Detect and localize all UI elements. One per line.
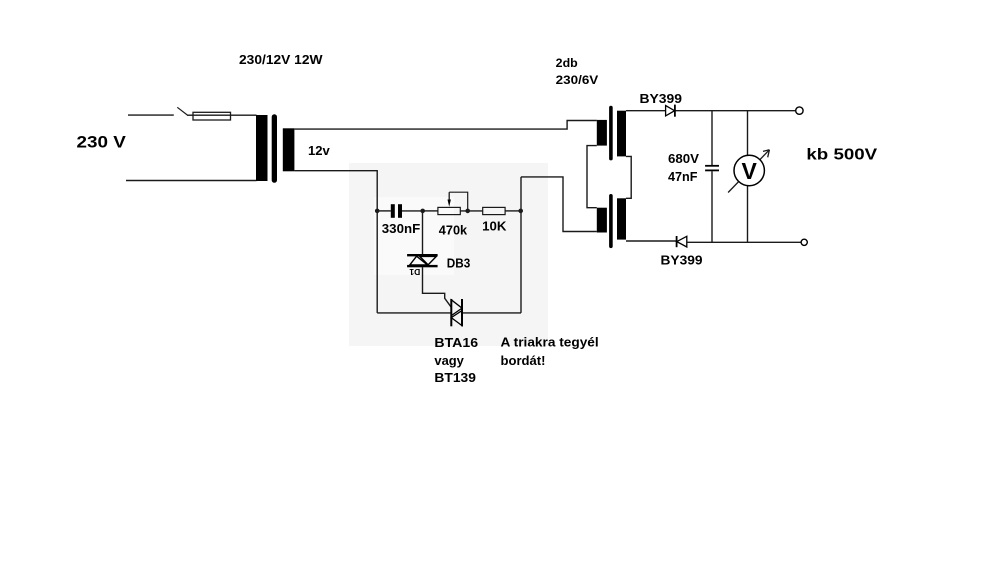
wire P1 wiper link — [449, 192, 468, 211]
node D junction — [518, 209, 523, 214]
svg-text:470k: 470k — [439, 223, 468, 238]
transformer TR2 core — [609, 106, 613, 161]
svg-text:vagy: vagy — [434, 353, 464, 368]
potentiometer P1 wiper arrow — [448, 192, 451, 207]
wire TR2-TR3 primary series link — [587, 146, 597, 208]
svg-text:12v: 12v — [308, 143, 331, 158]
svg-text:V: V — [742, 158, 758, 184]
fuse F1 — [193, 112, 231, 120]
diode D3 BY399 — [677, 236, 687, 247]
wire bottom rail right — [687, 241, 801, 243]
wire triac MT2 to node D — [462, 312, 521, 314]
transformer TR1 12v secondary winding — [283, 128, 295, 171]
svg-text:2db: 2db — [556, 56, 578, 70]
transformer TR3 secondary winding — [617, 198, 626, 239]
transformer TR3 core — [609, 194, 613, 248]
node B junction — [420, 209, 425, 214]
transformer TR1 core — [272, 114, 277, 183]
wire P1 to R1 — [460, 210, 482, 212]
switch S1 — [177, 107, 187, 115]
wire voltmeter bottom — [747, 186, 749, 243]
svg-text:BT139: BT139 — [434, 370, 476, 385]
wire 12v secondary top to TR2 primary — [294, 121, 596, 130]
transformer TR2 secondary winding — [617, 111, 626, 157]
wire node B down to diac — [422, 211, 424, 254]
svg-text:BTA16: BTA16 — [434, 335, 478, 350]
svg-text:230/12V 12W: 230/12V 12W — [239, 52, 323, 67]
wire switch to fuse — [187, 114, 193, 116]
transformer TR2 primary winding — [597, 120, 607, 146]
triac Q1 — [451, 299, 462, 326]
diode D2 BY399 — [666, 105, 675, 117]
svg-text:A triakra tegyél: A triakra tegyél — [501, 336, 599, 350]
node C junction — [465, 209, 470, 214]
wire node D to TR2 primary bottom — [521, 177, 597, 232]
svg-text:kb 500V: kb 500V — [806, 147, 878, 164]
wire fuse to TR1 — [231, 114, 257, 116]
wire bottom rail to triac MT1 — [377, 312, 451, 314]
svg-text:BY399: BY399 — [640, 91, 683, 106]
wire mains top — [128, 114, 174, 116]
transformer TR1 230/12V primary winding — [256, 115, 268, 181]
wire top rail to output — [626, 110, 796, 112]
svg-text:680V: 680V — [668, 151, 699, 166]
wire C2 top — [711, 111, 713, 166]
wire diac to triac gate — [423, 267, 452, 307]
terminal output negative — [801, 239, 807, 245]
wire voltmeter top — [747, 111, 749, 156]
wire TR2-TR3 secondary series link — [626, 156, 631, 198]
wire C2 bottom — [711, 171, 713, 242]
wire mains bottom — [126, 180, 257, 182]
svg-text:47nF: 47nF — [668, 169, 698, 184]
svg-text:BY399: BY399 — [661, 253, 703, 268]
terminal output positive — [796, 107, 803, 114]
wire node A to C1 — [377, 210, 391, 212]
capacitor C1 330nF — [391, 204, 402, 218]
svg-text:330nF: 330nF — [382, 221, 420, 236]
svg-text:230/6V: 230/6V — [556, 73, 599, 87]
svg-text:D1: D1 — [409, 267, 420, 277]
resistor R1 10K — [483, 207, 505, 214]
wire bottom rail left — [626, 240, 677, 242]
node A junction — [375, 209, 380, 214]
wire C1 to node B — [402, 210, 423, 212]
svg-text:DB3: DB3 — [447, 256, 471, 271]
wire node B to P1 — [423, 210, 438, 212]
svg-text:230 V: 230 V — [77, 134, 126, 152]
capacitor C2 680V 47nF — [705, 166, 719, 171]
svg-text:10K: 10K — [482, 218, 507, 233]
wire 12v secondary bottom to node A — [294, 171, 377, 313]
voltmeter M1 — [728, 150, 769, 193]
diac D1 DB3 — [407, 254, 438, 267]
transformer TR3 primary winding — [597, 208, 607, 233]
wire R1 to node D — [505, 210, 521, 212]
potentiometer P1 470k body — [438, 207, 460, 214]
svg-text:bordát!: bordát! — [501, 354, 546, 368]
wire node D vertical — [520, 177, 522, 313]
